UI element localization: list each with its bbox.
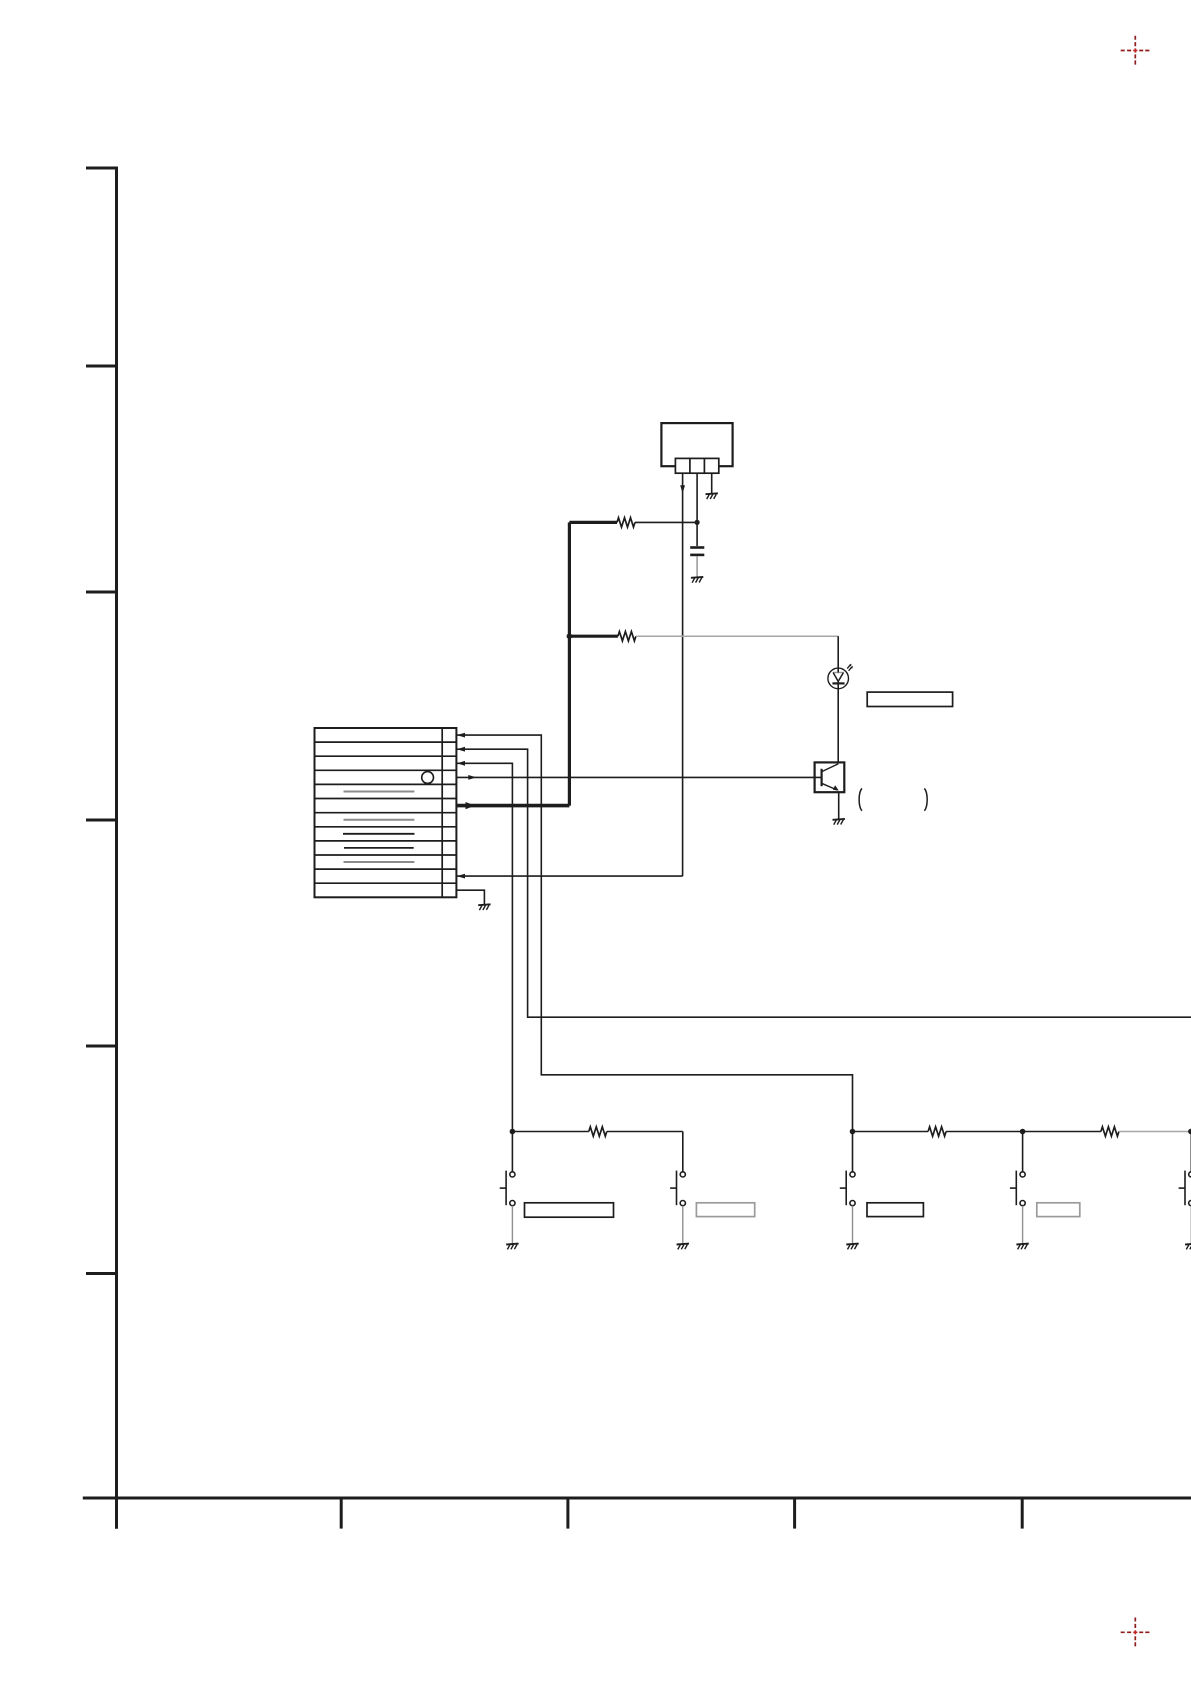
resistor R1 left lead (thick) xyxy=(569,521,617,524)
wire connector row12 to ground xyxy=(456,890,484,904)
ground at Q1 xyxy=(833,819,845,825)
resistor R4 xyxy=(928,1127,946,1136)
connector CN1 inner label line row9 xyxy=(344,847,414,849)
wire R5 to S5 (gray) xyxy=(1119,1131,1191,1133)
label box for LED xyxy=(867,692,952,706)
wire connector row11 (horizontal) xyxy=(457,875,683,877)
border tick y820 xyxy=(86,819,116,822)
thick vertical bus x569 xyxy=(568,522,571,805)
wire S1 junction to R3 xyxy=(512,1131,588,1133)
bottom tick x1022 xyxy=(1021,1498,1024,1529)
capacitor C1 bottom lead xyxy=(696,556,698,577)
wire Q1 emitter down xyxy=(838,792,840,819)
node junction S5 xyxy=(1188,1129,1191,1135)
IR receiver module U1 pin block xyxy=(675,458,718,473)
wire LED anode vertical xyxy=(837,636,839,669)
resistor R2 right lead (gray) to LED xyxy=(636,635,838,637)
wire connector row3 xyxy=(457,763,513,1131)
big arrow on row6 wire xyxy=(466,802,476,809)
node junction S3 xyxy=(850,1129,856,1135)
label box for S3 xyxy=(867,1203,923,1217)
parenthesis remnant left xyxy=(859,788,862,810)
ground at connector row12 xyxy=(478,904,490,910)
connector CN1 inner label line row8 xyxy=(343,833,415,835)
switch S1 xyxy=(500,1132,519,1250)
switch S4 xyxy=(1010,1132,1029,1250)
arrow on row4 wire xyxy=(468,775,476,780)
border tick y592 xyxy=(86,591,116,594)
resistor R3 xyxy=(589,1127,607,1136)
arrow into connector row1 xyxy=(457,733,465,738)
IR receiver module U1 body xyxy=(661,423,732,466)
page border bottom rule xyxy=(83,1497,1191,1500)
arrow into connector row11 xyxy=(457,874,465,879)
label box for S1 xyxy=(525,1203,614,1217)
border tick y1046 xyxy=(86,1045,116,1048)
wire connector row1 xyxy=(457,735,853,1131)
arrow into connector row3 xyxy=(457,761,465,766)
wire U1 pin1 to connector row11 (vertical) xyxy=(682,473,684,876)
resistor R1 right lead xyxy=(635,521,697,523)
label box for S4 (gray) xyxy=(1037,1203,1080,1217)
page border left rule xyxy=(115,167,118,1529)
registration mark top right xyxy=(1121,36,1150,65)
wire LED cathode to photo box xyxy=(837,688,839,763)
bottom tick x795 xyxy=(793,1498,796,1529)
capacitor C1 plates xyxy=(690,546,704,549)
resistor R5 xyxy=(1101,1127,1119,1136)
wire S4 junction to R5 xyxy=(1023,1131,1101,1133)
border tick y1273 xyxy=(86,1272,116,1275)
ground at C1 xyxy=(691,577,703,583)
connector CN1 inner gray label line row10 xyxy=(344,861,415,863)
bottom tick x341 xyxy=(340,1498,343,1529)
border tick y168 xyxy=(86,167,118,170)
connector CN1 pin-4 circle xyxy=(422,772,434,784)
wire U1 pin3 down xyxy=(711,473,713,494)
switch S2 xyxy=(670,1132,689,1250)
resistor R1 xyxy=(617,518,635,527)
LED D1 emission arrows xyxy=(847,664,853,671)
connector CN1 inner gray label line row5 xyxy=(344,791,415,793)
arrow down on U1 pin1 wire xyxy=(680,485,685,493)
registration mark bottom right xyxy=(1121,1618,1150,1647)
connector CN1 body xyxy=(315,728,457,897)
switch S3 xyxy=(840,1132,859,1250)
ground at U1 pin3 xyxy=(706,493,718,499)
node junction R1/C1/pin2 xyxy=(695,520,700,525)
arrow into connector row2 xyxy=(457,747,465,752)
phototransistor Q1 box xyxy=(815,762,845,792)
resistor R2 left lead (thick) xyxy=(569,635,618,638)
LED D1 xyxy=(828,668,849,689)
connector CN1 pin column divider xyxy=(441,728,443,897)
wire R4 to S4 junction xyxy=(946,1131,1023,1133)
wire connector row2 xyxy=(457,749,1191,1017)
connector CN1 inner gray label line row7 xyxy=(344,819,415,821)
parenthesis remnant right xyxy=(924,788,927,810)
node junction S1 xyxy=(510,1129,516,1135)
wire R3 to S2 xyxy=(607,1131,683,1133)
border tick y366 xyxy=(86,365,116,368)
switch S5 (clipped at page edge) xyxy=(1179,1132,1191,1250)
resistor R2 xyxy=(618,632,636,641)
bottom tick x568 xyxy=(566,1498,569,1529)
node junction S4 xyxy=(1020,1129,1026,1135)
wire connector row4 to Q1 base xyxy=(457,776,822,778)
thick wire connector row6 xyxy=(457,804,570,808)
wire S3 junction to R4 xyxy=(853,1131,929,1133)
phototransistor Q1 symbol xyxy=(822,764,839,791)
label box for S2 (gray) xyxy=(696,1203,754,1217)
connector CN1 row lines xyxy=(315,742,457,883)
node junction R2 left xyxy=(567,633,573,639)
wire U1 pin2 down xyxy=(696,473,698,546)
